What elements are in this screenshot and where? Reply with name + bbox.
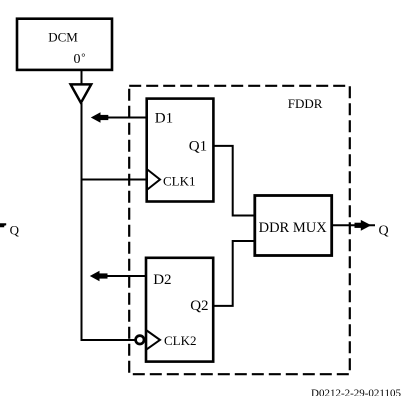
clock wedge CLK1 [147,169,160,190]
arrowhead on D1 wire [91,112,101,123]
arrowhead on D2 wire [90,271,100,282]
wire CLK1 input [82,179,148,181]
wire Q output [332,224,375,226]
clock wedge CLK2 [146,330,160,350]
wire clock trunk vertical [82,103,135,340]
svg-text:Q1: Q1 [189,139,207,155]
wire D2 input [99,275,146,277]
block DCM [17,19,112,70]
svg-text:°: ° [81,53,85,64]
svg-text:D0212-2-29-021105: D0212-2-29-021105 [311,388,402,396]
svg-text:D1: D1 [155,111,173,127]
inversion bubble on CLK2 [136,336,144,344]
svg-text:Q2: Q2 [190,298,208,314]
flip-flop block 2 [146,258,213,362]
svg-text:CLK1: CLK1 [163,174,196,189]
block DDR MUX [255,196,332,256]
svg-text:Q: Q [379,223,389,238]
wire Q2 to DDR MUX [213,241,254,306]
wire D1 input [99,117,147,119]
svg-text:CLK2: CLK2 [164,333,197,348]
svg-text:0: 0 [74,52,81,67]
svg-text:DDR MUX: DDR MUX [259,220,328,236]
arrowhead on Q output [361,220,371,231]
wire Q1 to DDR MUX [213,146,254,216]
wire DCM to buffer [81,70,83,84]
buffer U1 (clock buffer triangle) [71,84,92,102]
svg-text:DCM: DCM [48,30,78,45]
arrowhead fragment at left edge [0,223,6,227]
svg-text:D2: D2 [153,272,171,288]
dashed box FDDR [129,86,350,374]
svg-text:FDDR: FDDR [288,96,323,111]
flip-flop block 1 [147,99,214,202]
svg-text:Q: Q [10,223,20,238]
